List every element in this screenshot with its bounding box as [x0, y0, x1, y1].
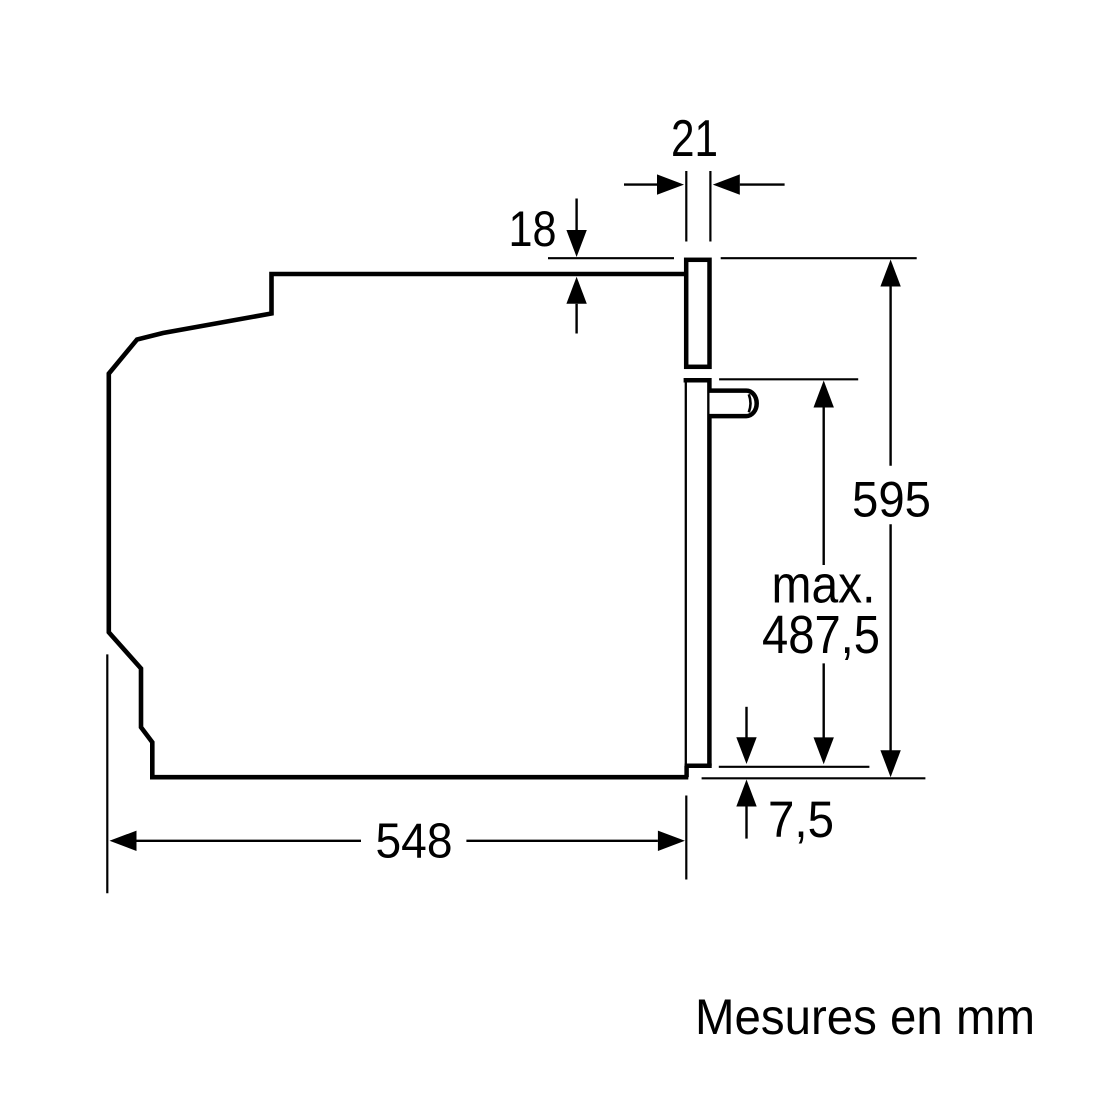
door bottom reference line: [719, 766, 870, 768]
487.5 dim upper shaft: [823, 407, 825, 565]
595 dim top arrowhead: [880, 260, 900, 287]
door lower right edge: [707, 378, 712, 766]
7.5 down arrow shaft: [745, 707, 747, 738]
487.5 dim top arrowhead: [814, 381, 834, 408]
21 dim right line: [740, 183, 785, 185]
knob (handle): [710, 391, 757, 417]
svg-text:18: 18: [509, 200, 557, 257]
21 dim left arrowhead: [657, 174, 684, 194]
door bottom edge: [685, 764, 712, 769]
595 dim upper shaft: [889, 286, 891, 466]
7.5 down arrowhead: [736, 737, 756, 764]
svg-text:595: 595: [852, 472, 931, 528]
door upper panel: [686, 260, 709, 367]
18 up arrowhead: [566, 277, 586, 304]
top reference line, right segment: [721, 257, 917, 259]
21 left tick: [685, 171, 687, 242]
top reference line (door top level), left segment: [548, 257, 674, 259]
door bottom jog: [684, 766, 689, 777]
knob inner highlight line: [749, 394, 751, 412]
548 right extension line: [685, 796, 687, 880]
svg-text:Mesures en mm: Mesures en mm: [695, 989, 1035, 1045]
487.5 dim lower shaft: [823, 663, 825, 739]
7.5 up arrow shaft: [745, 807, 747, 839]
svg-text:548: 548: [376, 814, 453, 869]
svg-text:7,5: 7,5: [768, 791, 834, 848]
548 dim left line: [137, 840, 362, 842]
548 dim right line: [466, 840, 658, 842]
7.5 up arrowhead: [736, 780, 756, 807]
max reference line: [719, 378, 858, 380]
595 dim lower shaft: [889, 524, 891, 751]
door lower top bar: [684, 378, 712, 383]
21 right tick: [709, 171, 711, 242]
21 dim right arrowhead: [713, 174, 740, 194]
door lower left edge: [685, 380, 687, 776]
oven body outline: [109, 274, 689, 777]
svg-text:487,5: 487,5: [762, 605, 880, 665]
18 up arrow shaft: [575, 304, 577, 334]
548 dim right arrowhead: [658, 831, 685, 851]
487.5 dim bottom arrowhead: [814, 737, 834, 764]
595 dim bottom arrowhead: [880, 750, 900, 777]
svg-text:21: 21: [671, 109, 718, 167]
18 down arrowhead: [566, 230, 586, 257]
21 dim left line: [624, 183, 658, 185]
548 dim left arrowhead: [110, 831, 137, 851]
18 down arrow shaft: [575, 199, 577, 233]
floor reference line: [702, 777, 926, 779]
548 left extension line: [106, 654, 108, 893]
